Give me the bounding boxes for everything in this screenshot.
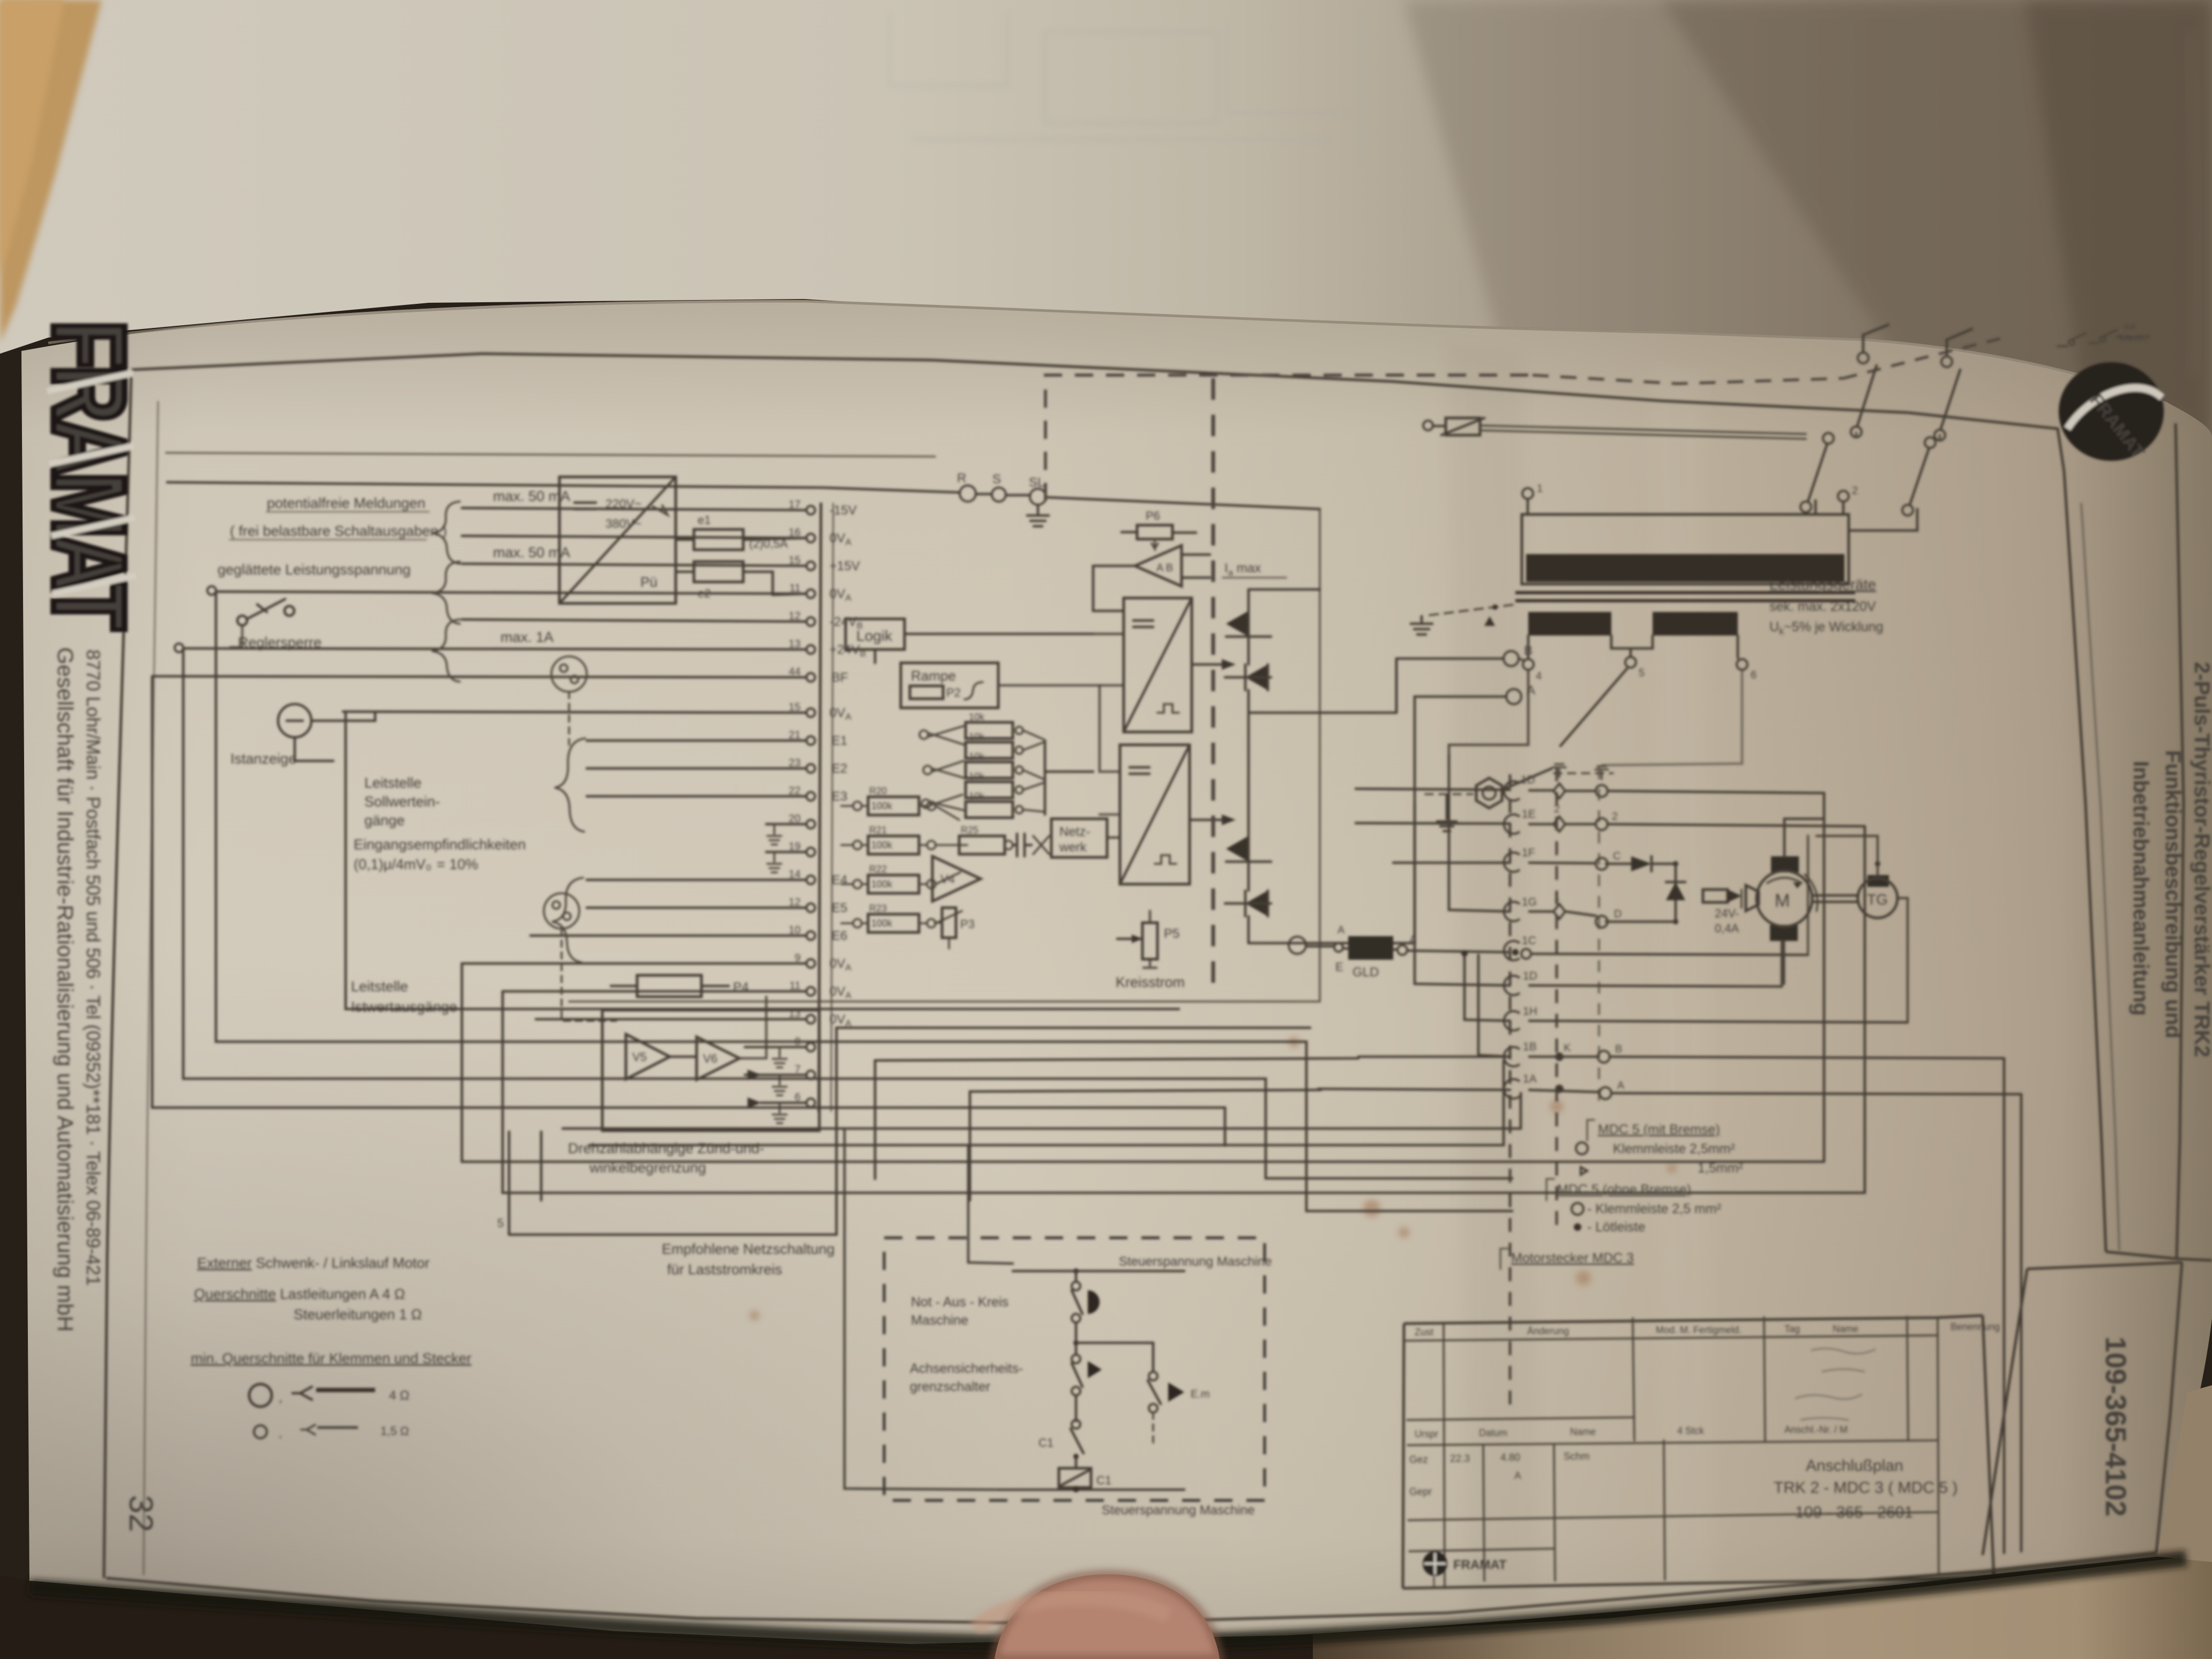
svg-text:100k: 100k [871, 879, 893, 890]
plug connector column 3 [1596, 785, 1611, 1099]
motor M [1771, 856, 1799, 872]
svg-text:C1: C1 [1038, 1436, 1053, 1449]
svg-text:Logik: Logik [856, 627, 893, 644]
top border from ellipse to page corner [1908, 413, 2064, 472]
svg-text:1F: 1F [1522, 847, 1535, 859]
svg-text:Anschl.-Nr. / M: Anschl.-Nr. / M [1784, 1424, 1848, 1435]
svg-text:potentialfreie Meldungen: potentialfreie Meldungen [267, 495, 425, 511]
terminal A [1506, 689, 1521, 704]
terminal R [960, 485, 976, 502]
facing page curl highlight far right [2187, 32, 2199, 375]
X-linked resistor cluster [920, 726, 965, 810]
svg-text:10k: 10k [969, 712, 985, 722]
svg-text:+15V: +15V [829, 559, 860, 573]
op-amp A/B current controller [1135, 545, 1182, 586]
frame top border [131, 354, 1908, 413]
svg-text:Funktionsbeschreibung und: Funktionsbeschreibung und [2161, 750, 2185, 1038]
logo FRAMAT [32, 320, 146, 630]
thyristor V2 [1245, 664, 1268, 690]
svg-text:100k: 100k [871, 840, 893, 850]
svg-text:SL: SL [1029, 475, 1044, 490]
title box left border (double line) [2064, 472, 2106, 1252]
svg-text:R21: R21 [869, 825, 887, 835]
svg-text:Sollwertein-: Sollwertein- [364, 794, 440, 810]
svg-text:min. Querschnitte für Klemmen: min. Querschnitte für Klemmen und Stecke… [191, 1350, 472, 1366]
shielded cable symbol lower [544, 893, 579, 929]
svg-text:Schm: Schm [1564, 1451, 1590, 1462]
svg-text:Empfohlene Netzschaltung: Empfohlene Netzschaltung [662, 1241, 835, 1257]
svg-text:V5: V5 [632, 1050, 647, 1064]
svg-text:grenzschalter: grenzschalter [910, 1379, 990, 1394]
svg-text:Externer Schwenk- / Linkslauf: Externer Schwenk- / Linkslauf Motor [197, 1255, 430, 1271]
right branch [1076, 1343, 1153, 1372]
svg-text:Istanzeige: Istanzeige [230, 751, 296, 767]
terminal SL [1030, 489, 1046, 505]
white slashes across logo [47, 373, 136, 594]
svg-text:K: K [1564, 1042, 1571, 1054]
svg-text:Steuerspannung Maschine: Steuerspannung Maschine [1119, 1254, 1272, 1269]
svg-text:Zust: Zust [1415, 1327, 1433, 1337]
wire loops [152, 677, 1225, 1146]
svg-text:max. 1A: max. 1A [500, 629, 554, 645]
labels left [910, 1295, 1023, 1394]
stains [750, 1037, 1677, 1320]
resistor R23 [868, 914, 919, 932]
pin labels [829, 503, 866, 1028]
Drehzahlabhängige Zündwinkelbegrenzung box [602, 1010, 819, 1131]
wire mains rail [167, 482, 960, 492]
svg-text:6: 6 [1751, 669, 1757, 681]
contactor contacts lower [1800, 433, 1940, 530]
svg-text:P5: P5 [1164, 926, 1179, 941]
svg-text:1: 1 [1554, 891, 1560, 903]
faint pencil scribbles [1795, 1348, 1875, 1420]
secondary wiring to bridge [1449, 670, 1528, 757]
firing unit 1 [1124, 598, 1192, 732]
number cell left border [1983, 1269, 2027, 1555]
svg-text:R25: R25 [961, 825, 978, 835]
svg-text:1D: 1D [1523, 970, 1537, 982]
ground under SL [1027, 505, 1049, 526]
svg-text:E6: E6 [832, 929, 847, 943]
svg-text:1E: 1E [1522, 808, 1536, 820]
block outline [569, 510, 1320, 1002]
svg-text:Querschnitte Lastleitungen: Querschnitte Lastleitungen A 4 Ω [194, 1286, 405, 1302]
svg-text:- Lötleiste: - Lötleiste [1587, 1220, 1645, 1235]
svg-text:100k: 100k [871, 801, 893, 811]
svg-text:Leitstelle: Leitstelle [351, 978, 408, 995]
svg-text:2: 2 [1852, 485, 1858, 497]
svg-text:-15V: -15V [829, 503, 857, 518]
svg-text:Leistungsgeräte: Leistungsgeräte [1769, 576, 1876, 593]
svg-text:100k: 100k [871, 918, 893, 929]
tiny coupling contacts near page corner [2058, 330, 2149, 346]
tan table wedge top-left [0, 0, 102, 343]
svg-text:Motorstecker MDC 3: Motorstecker MDC 3 [1511, 1251, 1634, 1266]
Not-Aus dashed enclosure [884, 1238, 1265, 1500]
brake solenoid [1746, 885, 1759, 911]
svg-text:C1: C1 [1096, 1474, 1111, 1487]
terminal S [992, 488, 1006, 502]
svg-text:V4: V4 [940, 872, 955, 886]
svg-text:Steuerspannung Maschine: Steuerspannung Maschine [1102, 1503, 1255, 1518]
darker shadow upper right [1404, 0, 2212, 461]
mains fuse [1423, 421, 1433, 430]
svg-text:5: 5 [1639, 667, 1645, 679]
op-amp V6 [697, 1037, 739, 1080]
svg-text:TRK 2 - MDC 3 ( MDC 5 ): TRK 2 - MDC 3 ( MDC 5 ) [1774, 1479, 1957, 1497]
terminal strip [819, 503, 821, 1112]
frame left border [104, 370, 131, 1578]
svg-text:Klemmleiste 2,5mm²: Klemmleiste 2,5mm² [1613, 1141, 1735, 1156]
svg-text:380V~: 380V~ [606, 517, 641, 530]
power supply unit Pü [559, 477, 676, 603]
thyristor V1 [1226, 611, 1249, 637]
MDC captions [1511, 1122, 1743, 1266]
svg-text:Tag: Tag [1784, 1324, 1800, 1334]
motor M [1757, 871, 1812, 926]
svg-text:2: 2 [1554, 803, 1560, 815]
svg-text:5: 5 [497, 1216, 504, 1230]
svg-text:Inbetriebnahmeanleitung: Inbetriebnahmeanleitung [2129, 761, 2153, 1016]
svg-text:R22: R22 [869, 864, 887, 875]
firing unit 2 [1120, 745, 1190, 884]
svg-text:Name: Name [1570, 1426, 1596, 1437]
svg-text:P6: P6 [1146, 509, 1160, 522]
transformer core [1515, 593, 1855, 601]
svg-text:10k: 10k [969, 731, 985, 742]
svg-text:,: , [279, 1390, 282, 1405]
svg-text:FRAMAT: FRAMAT [1453, 1558, 1507, 1572]
input wires [462, 508, 806, 510]
Logik box [846, 619, 905, 649]
svg-text:Steuerleitungen 1 Ω: Steuerleitungen 1 Ω [294, 1306, 422, 1322]
right border of title column [2176, 423, 2184, 1259]
op-amp V5 [626, 1034, 670, 1079]
tacho generator TG [1858, 878, 1897, 918]
svg-text:D: D [1614, 908, 1621, 920]
svg-text:1A: 1A [1523, 1073, 1537, 1085]
resistor R21 [868, 836, 919, 854]
centre tap switch [1560, 669, 1627, 746]
shielded cable symbol upper [551, 656, 587, 692]
GLD field rectifier [1289, 937, 1306, 954]
svg-text:Drehzahlabhängige Zünd-und-: Drehzahlabhängige Zünd-und- [568, 1140, 764, 1156]
svg-text:R: R [957, 471, 966, 485]
svg-text:GLD: GLD [1352, 965, 1379, 980]
field rectifier GLD [1348, 936, 1393, 960]
faint bleed-through drawing on upper page [890, 11, 1361, 161]
svg-text:32: 32 [122, 1495, 159, 1532]
armature reversing wiring [1519, 659, 1523, 660]
svg-text:C: C [1613, 850, 1620, 862]
ground at transformer shield [1411, 616, 1432, 634]
switch Reglersperre [237, 616, 247, 625]
svg-text:A: A [1617, 1080, 1625, 1092]
svg-text:4: 4 [1536, 670, 1542, 682]
module boundary dashed lines [1045, 375, 1533, 501]
svg-text:1H: 1H [1523, 1005, 1537, 1018]
svg-text:Gesellschaft für Industrie-Rat: Gesellschaft für Industrie-Rationalisier… [53, 647, 78, 1332]
potentiometer P6 [1137, 525, 1172, 539]
transformer primary winding [1522, 514, 1849, 584]
terminal B [1504, 651, 1519, 666]
Netzwerk box [1051, 819, 1107, 857]
svg-text:e2: e2 [698, 587, 711, 600]
svg-text:,: , [279, 1426, 282, 1440]
svg-text:4 Stck: 4 Stck [1677, 1425, 1705, 1436]
number cell right border [2156, 1262, 2182, 1553]
frame inner left margin [144, 402, 158, 1574]
table logo emblem [1423, 1551, 1447, 1576]
svg-text:Achsensicherheits-: Achsensicherheits- [910, 1361, 1023, 1376]
svg-text:Urspr: Urspr [1415, 1429, 1438, 1439]
motor feed wiring [1784, 819, 1824, 856]
ground stubs on rows 1538/1590/1954/2006/2058 [767, 824, 787, 1123]
company logo ellipse [2059, 362, 2164, 461]
free-wheel diode row [1606, 863, 1631, 865]
thyristor V4b [1245, 891, 1268, 916]
pin numbers [789, 499, 801, 1103]
shielded cable symbols [544, 656, 616, 1021]
shaft [1812, 895, 1858, 902]
potentiometer P4 [637, 975, 701, 997]
svg-text:( frei belastbare Schaltausgab: ( frei belastbare Schaltausgaben ) [230, 523, 447, 539]
left labels [218, 488, 570, 1015]
diode series [1631, 856, 1651, 871]
svg-text:10k: 10k [969, 771, 985, 782]
subtle page-top edge line [48, 301, 2168, 404]
thyristor V3 [1226, 836, 1249, 862]
Reglersperre switch [230, 599, 294, 647]
svg-text:R20: R20 [869, 786, 887, 796]
brake rectifier 24V 0,4A [1703, 890, 1728, 902]
svg-text:10k: 10k [969, 751, 985, 762]
svg-text:A: A [1337, 924, 1345, 936]
svg-text:A: A [1514, 1470, 1521, 1482]
shadow under page edge [29, 1558, 2186, 1644]
svg-text:Maschine: Maschine [911, 1313, 968, 1328]
svg-text:8770 Lohr/Main · Postfach 505: 8770 Lohr/Main · Postfach 505 und 506 · … [83, 649, 103, 1286]
potentiometer P3 [942, 908, 956, 938]
tacho TG [1867, 875, 1889, 887]
svg-text:Name: Name [1833, 1324, 1858, 1334]
svg-text:Datum: Datum [1479, 1428, 1507, 1438]
company logo ellipse [2059, 362, 2164, 462]
thyristor glyphs [1225, 598, 1271, 916]
svg-text:Gez: Gez [1409, 1454, 1428, 1466]
transformer secondary winding b [1653, 612, 1738, 636]
svg-text:Istwertausgänge: Istwertausgänge [351, 999, 457, 1015]
svg-text:M: M [1775, 891, 1790, 911]
svg-text:0,4A: 0,4A [1715, 922, 1739, 935]
svg-text:P2: P2 [946, 686, 961, 699]
shield dashed + ground [1430, 604, 1515, 615]
thyristor bus wiring [1249, 589, 1396, 943]
outputs with arrows to thyristors [1192, 663, 1222, 666]
transformer secondary winding a [1528, 612, 1611, 636]
svg-text:Änderung: Änderung [1527, 1326, 1569, 1336]
svg-text:R23: R23 [869, 903, 887, 914]
svg-text:A B: A B [1156, 562, 1173, 574]
svg-text:Anschlußplan: Anschlußplan [1806, 1457, 1903, 1475]
svg-text:24V-: 24V- [1715, 907, 1739, 920]
black arrowheads near bottom pins [748, 1070, 761, 1080]
svg-text:Pü: Pü [640, 574, 657, 590]
svg-text:(0,1)μ/4mV₀ = 10%: (0,1)μ/4mV₀ = 10% [354, 856, 478, 872]
svg-text:1B: 1B [1523, 1041, 1537, 1053]
svg-text:P4: P4 [733, 980, 749, 995]
svg-text:S: S [992, 472, 1001, 487]
Rampe box with P2 [901, 663, 998, 708]
svg-text:gänge: gänge [364, 812, 405, 828]
svg-text:Rampe: Rampe [911, 668, 956, 684]
svg-text:Eingangsempfindlichkeiten: Eingangsempfindlichkeiten [354, 836, 526, 853]
ground marks above row 1 connectors [1553, 764, 1608, 779]
resistors 10k bank [966, 722, 1013, 818]
svg-text:werk: werk [1059, 840, 1087, 855]
svg-text:1: 1 [1537, 483, 1543, 495]
svg-text:Benennung: Benennung [1951, 1321, 2000, 1332]
finger [995, 1574, 1220, 1659]
svg-text:BF: BF [832, 670, 848, 685]
contactor contacts upper [1851, 325, 1972, 440]
svg-text:10k: 10k [969, 791, 985, 802]
svg-text:1G: 1G [1522, 896, 1537, 908]
svg-text:Mod. M. Fertigmeld.: Mod. M. Fertigmeld. [1656, 1325, 1742, 1335]
row wires through columns [1356, 789, 1824, 793]
small header texts [1415, 1321, 2000, 1337]
svg-text:109 - 365 - 2601: 109 - 365 - 2601 [1795, 1504, 1913, 1521]
resistor R25 [959, 836, 1005, 854]
fuse e2 [694, 562, 743, 582]
divider above number cell [2106, 1252, 2212, 1260]
svg-text:MDC 5 (ohne Bremse): MDC 5 (ohne Bremse) [1557, 1182, 1691, 1197]
braces [432, 502, 585, 962]
op-amp V4 [932, 856, 981, 901]
svg-text:4 Ω: 4 Ω [389, 1388, 409, 1403]
svg-text:Masch.: Masch. [2120, 334, 2148, 343]
svg-text:- Klemmleiste 2,5 mm²: - Klemmleiste 2,5 mm² [1587, 1201, 1721, 1216]
svg-text:B: B [1615, 1043, 1622, 1055]
svg-text:1D: 1D [1521, 774, 1535, 786]
svg-text:E5: E5 [832, 901, 847, 915]
resistor R22 [868, 875, 919, 893]
svg-text:Netz-: Netz- [1059, 825, 1090, 839]
underlines for some labels [230, 512, 429, 540]
svg-text:109-365-4102: 109-365-4102 [2099, 1336, 2132, 1516]
svg-text:geglättete Leistungsspannung: geglättete Leistungsspannung [218, 562, 410, 578]
svg-text:2-Puls-Thyristor-Regelverstärk: 2-Puls-Thyristor-Regelverstärker TRK2 [2190, 662, 2212, 1057]
svg-text:220V~: 220V~ [606, 497, 641, 511]
ground at hex sensor [1437, 795, 1456, 831]
svg-text:Uk~5% je Wicklung: Uk~5% je Wicklung [1769, 619, 1884, 637]
R20..R23 resistor chain [780, 879, 833, 897]
Istanzeige meter circle [278, 704, 375, 761]
svg-text:P3: P3 [960, 917, 975, 931]
plug connector column 2 [1553, 783, 1565, 1092]
svg-text:1C: 1C [1522, 935, 1536, 947]
svg-text:TG: TG [1867, 891, 1888, 908]
resistor R20 [868, 797, 919, 815]
potentiometer P5 Kreisstrom [1142, 923, 1157, 959]
svg-text:2: 2 [1612, 811, 1618, 823]
svg-text:4.80: 4.80 [1500, 1452, 1520, 1463]
top strip: pages behind [0, 0, 2212, 482]
svg-text:sek. max. 2x120V: sek. max. 2x120V [1769, 599, 1876, 614]
contactor coil C1 [1059, 1468, 1091, 1488]
svg-text:zur: zur [2124, 322, 2136, 331]
svg-text:E: E [1335, 960, 1343, 974]
svg-text:Not - Aus - Kreis: Not - Aus - Kreis [911, 1295, 1008, 1310]
fuse e1 [694, 529, 743, 550]
svg-text:Kreisstrom: Kreisstrom [1116, 974, 1185, 990]
mechanical coupling double line [1480, 425, 1806, 439]
svg-text:e1: e1 [698, 513, 711, 527]
svg-text:Leitstelle: Leitstelle [364, 775, 422, 791]
meter Istanzeige [278, 704, 311, 737]
plug connector column 1 [1504, 781, 1520, 1098]
svg-text:E.m: E.m [1191, 1388, 1210, 1400]
frame bottom border [106, 1553, 2156, 1624]
diode freewheel [1666, 882, 1685, 900]
current sensor hex [1476, 778, 1502, 808]
svg-text:für Laststromkreis: für Laststromkreis [667, 1261, 782, 1277]
svg-text:Gepr: Gepr [1409, 1486, 1432, 1498]
svg-text:Reglersperre: Reglersperre [238, 634, 322, 651]
svg-text:V6: V6 [703, 1052, 718, 1065]
svg-text:MDC 5 (mit Bremse): MDC 5 (mit Bremse) [1598, 1122, 1720, 1137]
svg-text:22.3: 22.3 [1450, 1453, 1470, 1464]
svg-text:1,5 Ω: 1,5 Ω [380, 1424, 409, 1438]
